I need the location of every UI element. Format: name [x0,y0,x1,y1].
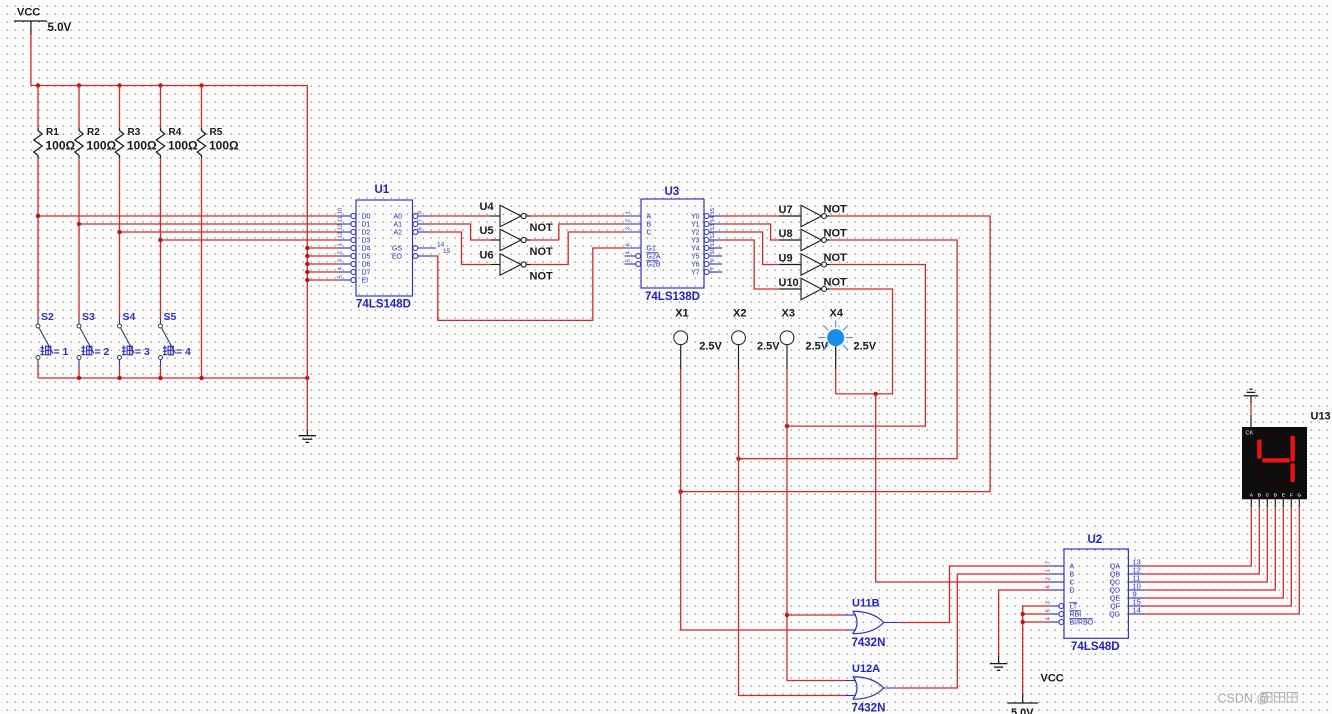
svg-text:NOT: NOT [824,204,848,216]
svg-text:RBI: RBI [1070,612,1082,619]
wire Y1 to U8 [722,224,779,240]
svg-text:U6: U6 [480,250,494,262]
svg-text:B: B [647,222,652,229]
wire D3 row from resistor column [158,238,339,242]
svg-text:QB: QB [1110,572,1120,579]
svg-text:2.5V: 2.5V [757,341,780,353]
svg-text:EO: EO [392,254,403,261]
svg-text:BI/RBO: BI/RBO [1070,620,1094,627]
svg-text:Y6: Y6 [691,262,700,269]
svg-text:S2: S2 [41,311,54,323]
wire bottom ground bus [38,377,307,379]
svg-text:A2: A2 [393,230,402,237]
svg-text:74LS138D: 74LS138D [645,291,700,303]
svg-text:D: D [1274,492,1278,498]
power VCC supply (5.0V) bottom [1008,673,1064,714]
svg-text:U4: U4 [480,201,495,213]
svg-text:7432N: 7432N [852,637,886,649]
probe X1 indicator (off) [674,308,723,370]
svg-text:NOT: NOT [824,228,848,240]
svg-text:Y2: Y2 [691,230,700,237]
svg-text:U1: U1 [375,184,390,196]
node junctions on bottom bus [77,376,310,380]
svg-text:A: A [1250,492,1254,498]
svg-text:D1: D1 [362,222,371,229]
svg-text:10: 10 [710,247,716,254]
wire EI row from right bus [305,278,339,282]
svg-text:2: 2 [1046,577,1052,580]
svg-text:2: 2 [626,219,632,222]
wire X3 branch to U11B input A [787,614,846,616]
svg-text:U11B: U11B [852,598,880,610]
wire Y0 to U7 [722,215,779,217]
svg-text:X4: X4 [830,308,844,320]
probe X2 indicator (off) [732,308,781,370]
svg-text:5.0V: 5.0V [1011,707,1034,714]
wire QD to display pin D [1144,507,1275,590]
svg-text:5.0V: 5.0V [48,22,72,34]
svg-text:A: A [1070,564,1075,571]
svg-text:14: 14 [710,215,716,222]
wire U5 out to U3 B [531,224,625,240]
svg-text:QA: QA [1110,564,1120,571]
svg-text:100Ω: 100Ω [209,139,239,153]
svg-text:11: 11 [338,216,344,222]
svg-text:14: 14 [1133,606,1141,615]
wire resistor R4 to switch S5 [160,158,162,324]
or-gate U11B 7432N [846,598,900,650]
svg-text:Y4: Y4 [691,246,700,253]
svg-text:1: 1 [626,211,632,214]
wire X2 column down to U12A input B [739,369,846,696]
svg-text:S5: S5 [164,311,177,323]
svg-text:R3: R3 [128,127,141,138]
svg-text:X2: X2 [733,308,746,320]
svg-text:U7: U7 [779,204,793,216]
svg-text:R1: R1 [46,127,59,138]
inverter U7 NOT gate [779,204,848,227]
svg-text:NOT: NOT [530,271,554,283]
svg-text:100Ω: 100Ω [127,139,157,153]
svg-text:12: 12 [338,224,344,231]
or-gate U12A 7432N [846,663,900,714]
7-segment display U13 showing 4 [1242,411,1331,508]
probe X3 indicator (off) [780,308,829,370]
svg-text:15: 15 [710,207,716,214]
svg-text:NOT: NOT [824,277,848,289]
svg-text:2.5V: 2.5V [854,341,877,353]
wire U12A out to U2 B [900,574,1050,688]
wire top VCC bus [31,86,307,379]
svg-text:13: 13 [338,231,344,238]
wire display CK to ground [1250,403,1252,415]
svg-text:= 3: = 3 [135,346,150,358]
svg-text:VCC: VCC [1041,673,1064,685]
svg-text:G1: G1 [647,246,656,253]
wire QF to display pin F [1144,507,1291,606]
svg-text:NOT: NOT [530,246,554,258]
power VCC supply (5.0V) top-left [14,7,71,35]
svg-text:Y5: Y5 [691,254,700,261]
wire U6 out to U3 C [531,232,625,265]
svg-text:74LS148D: 74LS148D [356,299,411,311]
svg-text:Y0: Y0 [691,214,700,221]
svg-text:D7: D7 [362,270,371,277]
wire U2 D to ground [999,590,1050,656]
svg-text:1: 1 [1046,569,1052,572]
svg-text:13: 13 [710,223,716,230]
svg-text:A: A [647,214,652,221]
wire VCC stem [30,21,32,86]
svg-text:U9: U9 [779,253,793,265]
svg-text:Y3: Y3 [691,238,700,245]
svg-text:U8: U8 [779,228,793,240]
wire QG to display pin G [1144,507,1299,614]
wire X4 net down to U2 C [876,394,1050,582]
inverter U8 NOT gate [779,228,848,251]
resistor R3 100Ω [115,86,157,159]
wire U11B out to U2 A [900,566,1050,623]
wire resistor R1 to switch S2 [37,158,39,324]
svg-text:F: F [1290,492,1293,498]
svg-text:D5: D5 [362,254,371,261]
switch S4 (key = 3) [118,311,151,378]
svg-text:12: 12 [710,232,716,239]
svg-text:100Ω: 100Ω [87,139,117,153]
svg-text:CSDN @: CSDN @ [1218,692,1270,706]
inverter U6 NOT gate [480,250,554,283]
svg-text:= 2: = 2 [95,346,110,358]
wire QE to display pin E [1144,507,1283,598]
resistor R4 100Ω [156,86,198,159]
resistor R5 100Ω [197,86,239,159]
svg-text:S3: S3 [82,311,95,323]
op-amp U2 74LS48D BCD-to-7seg [1046,534,1145,653]
svg-text:EI: EI [362,278,369,285]
svg-text:GS: GS [392,246,402,253]
wire D6 row from right bus [305,262,339,266]
inverter U5 NOT gate [480,225,554,258]
watermark CSDN [1218,692,1298,706]
op-amp U3 74LS138D decoder [625,186,723,303]
svg-text:LT: LT [1070,604,1078,611]
wire X3 column down to U12A input A [785,369,846,681]
wire D4 row from right bus [305,246,339,250]
svg-text:U12A: U12A [852,663,880,675]
svg-text:U10: U10 [779,277,799,289]
resistor R2 100Ω [75,86,117,159]
svg-text:9: 9 [710,259,716,262]
svg-text:NOT: NOT [530,222,554,234]
svg-text:9: 9 [418,211,424,214]
wire U9 output net to X3 column [785,265,926,429]
svg-text:15: 15 [443,248,451,255]
svg-text:D2: D2 [362,230,371,237]
svg-text:D3: D3 [362,238,371,245]
op-amp U1 74LS148D priority encoder [338,184,451,311]
ground symbol below U2 D [990,656,1007,670]
node junctions on top bus [36,83,204,87]
svg-text:C: C [647,230,652,237]
probe X4 indicator (lit) [818,308,876,370]
wire resistor R3 to switch S4 [119,158,121,324]
switch S3 (key = 2) [77,311,110,378]
wire X4 stem down [835,369,837,394]
svg-text:R2: R2 [87,127,100,138]
svg-text:QC: QC [1110,580,1121,587]
svg-text:Y7: Y7 [691,270,700,277]
svg-text:C: C [1266,492,1270,498]
svg-text:QF: QF [1110,604,1120,611]
svg-text:Y1: Y1 [691,222,700,229]
inverter U4 NOT gate [480,201,554,234]
svg-text:2.5V: 2.5V [806,341,829,353]
wire QC to display pin C [1144,507,1267,582]
wire EO to U3 G1 [429,248,625,320]
svg-text:= 4: = 4 [176,346,191,358]
svg-text:R4: R4 [169,127,182,138]
svg-text:1: 1 [338,243,344,246]
wire U7 output net to X1 column [679,216,991,494]
svg-text:D4: D4 [362,246,371,253]
wire QA to display pin A [1144,507,1251,566]
svg-text:= 1: = 1 [54,346,69,358]
svg-text:U3: U3 [665,186,680,198]
wire A2 to U6 [428,232,491,265]
svg-text:CK: CK [1246,431,1254,437]
inverter U10 NOT gate [779,277,848,300]
svg-text:X1: X1 [675,308,688,320]
svg-text:U2: U2 [1088,534,1103,546]
switch S2 (key = 1) [36,311,69,378]
svg-text:7: 7 [418,219,424,222]
resistor R1 100Ω [34,86,76,159]
svg-text:U5: U5 [480,225,494,237]
wire A1 to U5 [428,224,491,240]
svg-text:X3: X3 [782,308,795,320]
wire Y2 to U9 [722,232,779,265]
wire A0 to U4 [428,215,491,217]
wire resistor R2 to switch S3 [78,158,80,324]
svg-text:S4: S4 [123,311,136,323]
svg-text:G2A: G2A [647,254,661,261]
svg-text:D0: D0 [362,214,371,221]
wire D1 row from resistor column [77,222,339,226]
wire Y3 to U10 [722,240,779,289]
svg-text:10: 10 [338,207,344,214]
svg-text:R5: R5 [210,127,223,138]
ground symbol above display (inverted) [1244,389,1259,403]
switch S5 (key = 4) [159,311,192,378]
wire resistor R5 column to bottom bus [201,158,203,378]
svg-text:B: B [1070,572,1075,579]
svg-text:U13: U13 [1311,411,1331,423]
wire D0 row from resistor column [36,214,339,218]
svg-text:VCC: VCC [17,7,40,19]
wire X1 column down to U11B input B [681,369,846,630]
svg-text:7432N: 7432N [852,703,886,714]
svg-text:7: 7 [710,267,716,270]
svg-text:G2B: G2B [647,262,661,269]
svg-text:B: B [1258,492,1262,498]
wire D5 row from right bus [305,254,339,258]
svg-text:74LS48D: 74LS48D [1071,641,1120,653]
wire U4 out to U3 A [531,215,625,217]
wire QB to display pin B [1144,507,1259,574]
svg-text:D6: D6 [362,262,371,269]
svg-text:2.5V: 2.5V [699,341,722,353]
ground symbol below bottom bus [299,378,316,442]
svg-text:QE: QE [1110,596,1120,603]
svg-text:C: C [1070,580,1075,587]
svg-text:A1: A1 [393,222,402,229]
svg-text:100Ω: 100Ω [168,139,198,153]
svg-text:QG: QG [1109,612,1120,619]
svg-text:QD: QD [1110,588,1121,595]
inverter U9 NOT gate [779,252,848,275]
svg-text:A0: A0 [393,214,402,221]
wire U2 LT/RBI/BI to VCC [1021,606,1051,694]
svg-text:2: 2 [338,251,344,254]
svg-text:NOT: NOT [824,252,848,264]
svg-text:100Ω: 100Ω [46,139,76,153]
svg-text:D: D [1070,588,1075,595]
svg-text:7: 7 [1046,561,1052,564]
svg-text:11: 11 [710,240,716,246]
svg-text:G: G [1297,492,1301,498]
wire U10 output net to X4 [830,289,893,396]
wire D7 row from right bus [305,270,339,274]
wire D2 row from resistor column [117,230,339,234]
wire U8 output net to X2 column [736,240,957,461]
